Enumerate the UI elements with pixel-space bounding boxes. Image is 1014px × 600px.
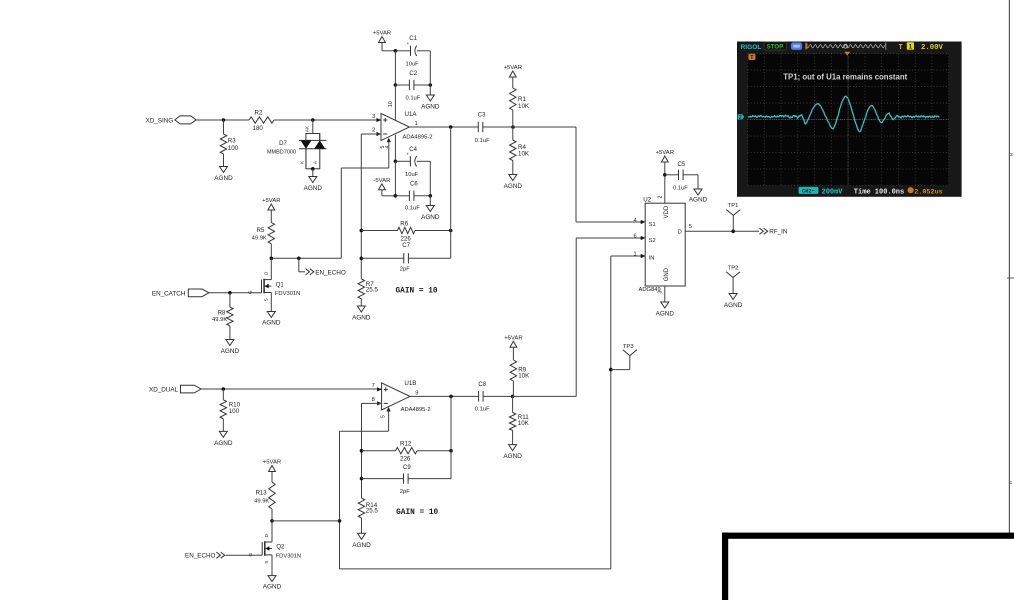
svg-text:+: + <box>406 152 409 157</box>
mux U2 ADG849 <box>645 203 685 286</box>
wire Q1 drain rail <box>271 257 341 259</box>
svg-text:5: 5 <box>381 415 387 418</box>
power -5VAR for U1A <box>379 184 386 190</box>
ground AGND for C4 C6 <box>426 206 434 212</box>
svg-text:STOP: STOP <box>767 44 784 51</box>
svg-text:GAIN = 10: GAIN = 10 <box>396 288 438 296</box>
node junction Q2 drain rail <box>338 519 342 523</box>
wire +5VAR to R9 <box>512 347 514 360</box>
svg-text:-5VAR: -5VAR <box>373 178 390 184</box>
svg-text:G: G <box>248 290 253 294</box>
scope header usb icon <box>791 42 802 50</box>
wire R11 to ground <box>512 431 514 445</box>
svg-text:3: 3 <box>372 114 375 120</box>
resistor R8 49.9K <box>227 307 233 326</box>
wire U2 D output <box>685 230 759 232</box>
wire U1B disable pin <box>387 407 391 412</box>
resistor R4 10K <box>510 140 516 161</box>
svg-text:D: D <box>678 230 682 236</box>
svg-text:R12: R12 <box>400 440 412 447</box>
ground AGND under Q2 <box>268 576 276 582</box>
node junction R6 right <box>449 229 453 233</box>
svg-text:2: 2 <box>739 115 742 121</box>
wire R10 top lead <box>222 389 224 400</box>
svg-text:10K: 10K <box>518 103 530 110</box>
svg-text:RIGOL: RIGOL <box>741 44 762 51</box>
wire R7 to ground <box>360 299 362 306</box>
svg-text:100: 100 <box>228 145 239 152</box>
svg-text:2: 2 <box>1010 152 1013 158</box>
svg-text:AGND: AGND <box>724 302 743 309</box>
svg-text:180: 180 <box>253 125 264 132</box>
svg-text:MMBD7000: MMBD7000 <box>267 149 296 155</box>
svg-text:200mV: 200mV <box>822 188 844 196</box>
diode D7 MMBD7000 <box>306 134 320 169</box>
svg-text:10uF: 10uF <box>405 172 419 178</box>
svg-text:8: 8 <box>372 397 375 403</box>
svg-text:TP2: TP2 <box>728 266 739 272</box>
wire R8 top lead <box>229 293 231 307</box>
svg-text:+5VAR: +5VAR <box>504 65 522 71</box>
wire R4 to ground <box>512 161 514 175</box>
resistor R13 49.9K <box>269 482 275 509</box>
capacitor C1 10uF <box>395 50 410 52</box>
svg-text:10: 10 <box>388 101 394 107</box>
wire C6 right to ground <box>429 196 431 206</box>
wire R14 to ground <box>361 518 363 533</box>
svg-text:AGND: AGND <box>262 320 281 327</box>
svg-text:0.1uF: 0.1uF <box>475 406 490 412</box>
capacitor C6 0.1uF <box>395 195 409 197</box>
scope trigger position marker <box>844 52 850 56</box>
svg-text:C7: C7 <box>402 243 410 249</box>
svg-text:AGND: AGND <box>352 542 371 549</box>
wire bias node to R11 <box>512 396 514 412</box>
svg-text:+5VAR: +5VAR <box>373 31 391 37</box>
wire R1 to bias node <box>512 110 514 127</box>
svg-text:S: S <box>264 298 269 301</box>
svg-text:AGND: AGND <box>214 440 233 447</box>
svg-text:IN: IN <box>649 256 655 262</box>
svg-text:AGND: AGND <box>504 183 523 190</box>
svg-text:226: 226 <box>400 456 411 463</box>
resistor R12 226 <box>396 448 418 454</box>
svg-text:0.1uF: 0.1uF <box>406 95 421 101</box>
svg-text:EN_CATCH: EN_CATCH <box>152 290 186 297</box>
wire disable run left <box>341 167 389 169</box>
wire XD_DUAL to U1B pin 7 <box>201 388 382 390</box>
wire U2 IN column up <box>610 256 612 569</box>
svg-text:U1B: U1B <box>404 380 416 387</box>
node junction TP1 tap <box>731 229 735 233</box>
svg-text:TP1; out of U1a remains consta: TP1; out of U1a remains constant <box>783 73 907 82</box>
wire to U2 S2 <box>576 237 645 239</box>
capacitor C2 0.1uF <box>395 84 409 86</box>
wire U1A pin2 feedback column <box>361 133 381 135</box>
resistor R10 100 <box>220 400 226 419</box>
node junction C7 left <box>360 257 364 261</box>
ground AGND for C5 <box>694 189 702 195</box>
wire C5 right to ground <box>697 175 699 189</box>
ground AGND under R3 <box>220 167 228 173</box>
svg-text:R2: R2 <box>255 110 263 117</box>
svg-text:+5VAR: +5VAR <box>262 198 280 204</box>
wire disable column down lower <box>339 431 341 569</box>
capacitor C3 0.1uF <box>477 122 479 132</box>
ground AGND under D7 <box>309 177 317 183</box>
scope header channel 1 badge <box>907 42 914 49</box>
svg-text:5: 5 <box>689 224 692 230</box>
wire U1B pin8 feedback column <box>361 403 363 498</box>
op-amp U1B <box>382 383 410 410</box>
scope header waveform preview <box>805 43 807 50</box>
wire R10 to ground <box>222 419 224 432</box>
node junction D7 tap <box>311 118 315 122</box>
wire +5VAR to R13 <box>271 472 273 483</box>
node junction C2 left <box>394 83 398 87</box>
node junction R1 R4 bias <box>511 125 515 129</box>
scope trigger offset <box>908 187 914 193</box>
scope waveform <box>748 96 939 131</box>
svg-text:2pF: 2pF <box>400 489 410 495</box>
node junction R6 left <box>360 229 364 233</box>
resistor R7 25.5 <box>358 279 364 299</box>
wire R12 line left <box>362 450 396 452</box>
svg-text:10K: 10K <box>518 150 530 157</box>
svg-text:10K: 10K <box>518 372 530 379</box>
svg-text:Time 100.0ns: Time 100.0ns <box>854 188 904 196</box>
svg-text:G: G <box>248 552 253 556</box>
svg-text:C2: C2 <box>409 71 417 77</box>
wire C4 right down to C6 right <box>429 161 431 196</box>
power +5VAR for U2 <box>661 156 668 162</box>
ground AGND under Q1 <box>267 312 275 318</box>
node junction C1 left <box>394 49 398 53</box>
svg-text:VDD: VDD <box>664 205 670 218</box>
node junction R13 Q2 drain <box>270 519 274 523</box>
node junction R8 tap <box>228 291 232 295</box>
svg-text:RF_IN: RF_IN <box>769 229 788 236</box>
svg-text:AGND: AGND <box>304 185 323 192</box>
svg-text:XD_SING: XD_SING <box>146 118 174 125</box>
node junction TP3 tap <box>609 368 613 372</box>
wire R12 line right <box>417 450 451 452</box>
wire S2 column up <box>575 238 577 396</box>
wire U1A output <box>409 126 478 128</box>
wire +5VAR to C1 rail <box>381 43 383 51</box>
wire EN_CATCH to Q1 gate <box>209 292 256 294</box>
svg-text:25.5: 25.5 <box>366 287 379 294</box>
wire output feedback column <box>450 127 452 258</box>
wire R3 top lead <box>223 120 225 134</box>
resistor R9 10K <box>510 360 516 381</box>
svg-text:4: 4 <box>385 146 391 149</box>
svg-text:0.1uF: 0.1uF <box>475 138 490 144</box>
ground AGND under U2 <box>661 302 669 308</box>
svg-text:R8: R8 <box>218 310 226 316</box>
wire -5VAR to C6 rail <box>381 190 383 196</box>
svg-text:2pF: 2pF <box>400 267 410 273</box>
svg-text:R13: R13 <box>256 490 268 496</box>
capacitor C7 2pF <box>403 253 405 263</box>
svg-text:AGND: AGND <box>689 197 708 204</box>
svg-text:AGND: AGND <box>421 214 440 221</box>
svg-text:3: 3 <box>658 291 664 294</box>
svg-text:S2: S2 <box>649 238 656 244</box>
capacitor C9 2pF <box>403 473 405 483</box>
wire D7 anode lead <box>312 120 314 134</box>
node junction C4 left <box>394 160 398 164</box>
capacitor C4 10uF <box>395 160 410 162</box>
wire C9 line left <box>362 478 404 480</box>
svg-text:ADA4895-2: ADA4895-2 <box>403 135 433 141</box>
wire EN_ECHO stub <box>298 258 300 272</box>
svg-text:AK: AK <box>304 125 309 132</box>
svg-text:FDV301N: FDV301N <box>275 291 300 297</box>
scope channel 2 marker <box>738 114 745 119</box>
svg-text:TP1: TP1 <box>728 203 739 209</box>
wire S1 column down <box>575 127 577 222</box>
svg-text:ADA4895-2: ADA4895-2 <box>401 407 431 413</box>
ground AGND under R4 <box>509 175 517 181</box>
resistor R1 10K <box>510 88 516 110</box>
ground AGND under R14 <box>358 533 366 539</box>
node junction U1A output <box>449 125 453 129</box>
svg-text:0.1uF: 0.1uF <box>405 206 420 212</box>
svg-text:226: 226 <box>401 236 412 243</box>
svg-text:Q1: Q1 <box>276 282 285 288</box>
wire Q2 drain rail <box>272 520 340 522</box>
node junction C2 right <box>429 83 433 87</box>
wire bias node to R4 <box>512 127 514 140</box>
node junction R12 right <box>449 449 453 453</box>
svg-text:AGND: AGND <box>503 453 522 460</box>
svg-text:+5VAR: +5VAR <box>263 460 281 466</box>
capacitor C5 0.1uF <box>665 174 679 176</box>
svg-text:S1: S1 <box>649 222 656 228</box>
wire R5 to drain node <box>270 244 272 258</box>
wire XD_SING to R2 <box>196 119 249 121</box>
capacitor C8 0.1uF <box>478 391 480 401</box>
wire disable column down <box>340 168 342 258</box>
wire +5VAR to VDD pin <box>664 162 666 203</box>
wire C3 to bias node <box>483 126 513 128</box>
svg-text:GAIN = 10: GAIN = 10 <box>396 509 438 517</box>
node junction C9 left <box>360 477 364 481</box>
svg-text:49.9K: 49.9K <box>212 317 227 323</box>
node junction R12 left <box>360 449 364 453</box>
svg-text:GND: GND <box>664 267 670 281</box>
power +5VAR for R13 <box>269 466 276 472</box>
svg-text:R5: R5 <box>257 228 265 234</box>
scope T badge <box>748 54 755 60</box>
resistor R6 226 <box>398 227 416 233</box>
oscilloscope screenshot <box>737 42 962 197</box>
ground AGND under R11 <box>509 445 517 451</box>
svg-text:25.5: 25.5 <box>366 508 379 515</box>
wire U2 GND pin <box>664 286 666 302</box>
resistor R14 25.5 <box>358 498 364 518</box>
resistor R3 <box>220 134 226 154</box>
power +5VAR for R1 <box>509 71 516 77</box>
ground AGND under TP2 <box>729 294 737 300</box>
resistor R11 10K <box>509 413 515 431</box>
svg-text:+: + <box>407 42 410 47</box>
svg-text:0.1uF: 0.1uF <box>673 186 688 192</box>
svg-text:AGND: AGND <box>656 311 675 318</box>
svg-text:C3: C3 <box>478 113 486 119</box>
wire R6 line left <box>361 230 397 232</box>
ground AGND under R8 <box>226 340 234 346</box>
port EN_ECHO out <box>306 269 314 275</box>
svg-text:49.9K: 49.9K <box>254 498 269 504</box>
svg-text:EN_ECHO: EN_ECHO <box>315 269 346 276</box>
svg-text:U1A: U1A <box>405 111 418 118</box>
wire C8 to bias node <box>483 395 512 397</box>
svg-text:+5VAR: +5VAR <box>656 150 674 156</box>
wire U1A disable pin <box>387 138 391 143</box>
svg-text:CH2~: CH2~ <box>802 188 815 194</box>
svg-text:2.052us: 2.052us <box>914 188 943 196</box>
wire C2 right to ground <box>429 85 431 95</box>
svg-text:100: 100 <box>229 408 240 415</box>
scope graticule <box>748 54 949 186</box>
wire bias node to S2 column <box>513 395 577 397</box>
node junction R10 tap <box>222 387 226 391</box>
svg-text:XD_DUAL: XD_DUAL <box>149 386 179 393</box>
wire C9 line right <box>408 478 451 480</box>
wire U1A pin 10 supply <box>394 85 396 121</box>
svg-text:2: 2 <box>372 127 375 133</box>
wire U1B output <box>410 395 479 397</box>
power +5VAR for R9 <box>510 341 517 347</box>
wire C7 line left <box>361 257 404 259</box>
wire EN_ECHO to Q2 gate <box>226 554 257 556</box>
node junction U1B output <box>449 395 453 399</box>
ground AGND under R10 <box>219 431 227 437</box>
power +5VAR for U1A <box>379 37 386 43</box>
svg-text:1: 1 <box>1010 480 1013 486</box>
svg-text:C1: C1 <box>409 36 417 42</box>
wire to U2 S1 <box>576 221 645 223</box>
wire TP3 stub <box>611 369 630 371</box>
wire R9 to bias node <box>512 381 514 396</box>
transistor Q2 FDV301N <box>256 554 262 556</box>
title block border <box>722 533 1014 539</box>
wire R8 to ground <box>229 326 231 340</box>
svg-text:AGND: AGND <box>352 315 371 322</box>
wire C1 rail down to C2 rail <box>394 51 396 85</box>
svg-text:C6: C6 <box>410 182 418 188</box>
node junction R5 Q1 drain <box>270 257 274 261</box>
node junction R3 tap <box>222 118 226 122</box>
svg-text:R3: R3 <box>228 137 236 144</box>
wire R3 to ground <box>223 154 225 167</box>
svg-text:AGND: AGND <box>263 584 282 591</box>
node junction EN_ECHO tap <box>297 257 301 261</box>
svg-text:C5: C5 <box>678 162 686 168</box>
svg-text:1: 1 <box>633 252 636 258</box>
node junction C5 left <box>663 173 667 177</box>
op-amp U1A <box>381 114 409 141</box>
svg-text:4: 4 <box>633 218 636 224</box>
svg-text:6: 6 <box>633 234 636 240</box>
svg-text:10uF: 10uF <box>406 61 420 67</box>
svg-text:9: 9 <box>415 390 418 396</box>
svg-text:D7: D7 <box>279 141 287 147</box>
wire U1A pin 4 supply down <box>394 135 396 162</box>
svg-text:TP3: TP3 <box>623 344 635 350</box>
svg-text:Q2: Q2 <box>276 545 285 551</box>
wire C4 left down to C6 rail <box>394 161 396 196</box>
svg-text:R6: R6 <box>400 220 408 227</box>
svg-text:2: 2 <box>658 196 664 199</box>
svg-text:EN_ECHO: EN_ECHO <box>185 553 216 560</box>
scope header STOP <box>764 42 786 50</box>
svg-text:AGND: AGND <box>421 104 440 111</box>
wire C7 line right <box>408 257 450 259</box>
node junction C6 right <box>429 194 433 198</box>
svg-text:2.00V: 2.00V <box>921 44 944 52</box>
resistor R2 <box>249 117 274 123</box>
node junction C6 left <box>394 194 398 198</box>
wire disable run left lower <box>340 430 389 432</box>
svg-text:+5VAR: +5VAR <box>504 335 522 341</box>
svg-text:7: 7 <box>372 383 375 389</box>
scope CH2 badge <box>799 187 819 194</box>
power +5VAR for R5 <box>268 204 275 210</box>
wire to U2 IN <box>611 255 645 257</box>
svg-text:C4: C4 <box>409 147 417 153</box>
wire U1B pin 8 lead <box>362 402 382 404</box>
svg-text:AGND: AGND <box>221 348 240 355</box>
wire bias node to S1 column <box>513 126 576 128</box>
svg-text:C8: C8 <box>478 382 486 388</box>
svg-text:S: S <box>264 561 269 564</box>
wire R6 line right <box>415 230 451 232</box>
wire R2 to U1A pin 3 <box>274 119 381 121</box>
node junction R9 R11 bias <box>511 395 515 399</box>
svg-text:10K: 10K <box>518 420 530 427</box>
wire bottom run to U2 IN <box>340 568 611 570</box>
ground AGND for C1 C2 <box>426 95 434 101</box>
port RF_IN <box>759 228 767 234</box>
svg-text:AGND: AGND <box>214 175 233 182</box>
svg-text:FDV301N: FDV301N <box>276 553 301 559</box>
svg-text:C9: C9 <box>403 465 411 471</box>
resistor R5 49.9K <box>268 223 274 244</box>
transistor Q1 FDV301N <box>256 292 262 294</box>
wire R13 to drain node <box>271 509 273 521</box>
wire C1 right down to C2 right <box>429 51 431 85</box>
svg-text:U2: U2 <box>643 196 651 203</box>
svg-text:1: 1 <box>415 121 418 127</box>
wire output feedback column lower <box>450 396 452 478</box>
svg-text:49.9K: 49.9K <box>252 236 267 242</box>
wire +5VAR to R1 <box>512 77 514 88</box>
wire D7 cathode to ground <box>311 167 315 171</box>
svg-text:T: T <box>899 44 903 52</box>
sheet border right <box>1008 0 1010 534</box>
wire +5VAR to R5 <box>270 210 272 223</box>
ground AGND under R7 <box>357 306 365 312</box>
